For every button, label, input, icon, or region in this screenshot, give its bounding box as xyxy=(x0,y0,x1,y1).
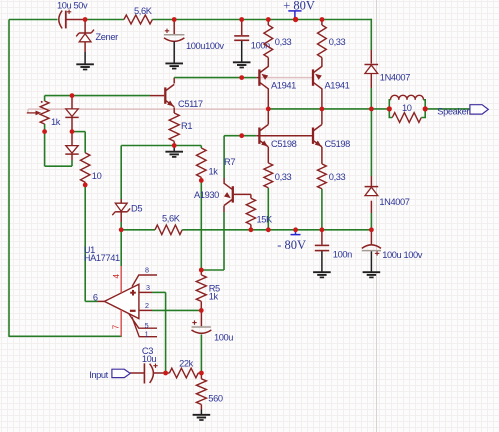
op-amp pin 7 power line xyxy=(111,310,121,336)
wire filter to speaker connector xyxy=(425,108,470,110)
page border line xyxy=(376,0,378,432)
wire D1 to output node xyxy=(370,74,372,109)
svg-text:A1930: A1930 xyxy=(194,190,219,200)
wire top rail left segment xyxy=(9,19,58,21)
wire R7 top stub xyxy=(200,146,202,149)
wire pot bottom stub xyxy=(44,124,46,132)
svg-text:3: 3 xyxy=(146,283,150,292)
wire R7 bottom stub xyxy=(200,177,202,180)
wire Q3 collector to base rail xyxy=(223,136,225,184)
node R7 bottom xyxy=(199,178,204,183)
resistor R13 560 xyxy=(196,379,222,405)
svg-text:0,33: 0,33 xyxy=(275,172,292,182)
node 22k right xyxy=(199,371,204,376)
svg-text:8: 8 xyxy=(145,265,149,274)
svg-text:1k: 1k xyxy=(209,291,219,301)
wire R13 to ground xyxy=(200,405,202,410)
resistor R11 15K xyxy=(246,198,273,224)
node filter left xyxy=(387,106,392,111)
wire Q5 base to Q6 base xyxy=(261,135,313,137)
wire node A to D3 xyxy=(71,20,73,109)
power +80V xyxy=(283,0,315,20)
wire pot bottom to D4 xyxy=(45,132,72,167)
op-amp pin 2 label xyxy=(145,301,149,310)
inductor L1 10 xyxy=(391,95,424,113)
node output diodes xyxy=(369,107,374,112)
wire -80V rail right of R8 xyxy=(182,229,371,231)
ground for zener xyxy=(76,52,94,70)
node R4 top xyxy=(266,17,271,22)
svg-text:10: 10 xyxy=(92,171,102,181)
op-amp U1 HA17741 xyxy=(84,245,139,318)
wire op-amp pin3 xyxy=(136,291,166,293)
wire D4 bottom stub xyxy=(71,154,73,160)
node R9 bottom xyxy=(266,227,271,232)
svg-text:15K: 15K xyxy=(257,215,274,225)
capacitor C1 10u 50v xyxy=(9,1,88,29)
node input / pin3 xyxy=(163,371,168,376)
svg-text:0,33: 0,33 xyxy=(275,37,292,47)
op-amp pin 3 label xyxy=(146,283,150,292)
wire top rail +80V section xyxy=(242,19,372,21)
svg-text:22k: 22k xyxy=(179,358,194,368)
ground for C8 xyxy=(363,251,381,277)
svg-text:5,6K: 5,6K xyxy=(134,6,153,16)
node upper base rail xyxy=(239,75,244,80)
svg-text:R1: R1 xyxy=(181,121,192,131)
wire D5 to -80V rail xyxy=(120,199,122,230)
wire node B to D4 xyxy=(71,132,73,146)
node +80V rail xyxy=(293,17,298,22)
svg-text:Input: Input xyxy=(89,370,108,380)
svg-text:A1941: A1941 xyxy=(325,80,350,90)
ground for R13 xyxy=(193,410,211,421)
wire +80V rail down to D1 xyxy=(370,19,372,64)
wire output node down to D2 xyxy=(370,109,372,186)
svg-text:HA17741: HA17741 xyxy=(84,253,120,263)
wire Q3 emitter to R5 node xyxy=(201,206,224,270)
wire left feedback vertical xyxy=(8,20,10,337)
wire output rail xyxy=(268,108,390,110)
wire Q4 collector through output to Q6 collector xyxy=(267,88,269,124)
svg-text:560: 560 xyxy=(208,393,223,403)
diode D2 1N4007 xyxy=(365,187,410,207)
svg-text:Zener: Zener xyxy=(96,32,119,42)
ground for R1 node xyxy=(165,146,183,157)
resistor R8 5,6K xyxy=(155,214,182,235)
wire pin3 to input node xyxy=(165,292,167,373)
wire Q5 collector through output to Q7 collector xyxy=(321,88,323,124)
wire top rail R2 to C4 xyxy=(152,19,241,21)
transistor Q3 A1930 xyxy=(194,183,233,205)
svg-text:1N4007: 1N4007 xyxy=(379,197,409,207)
wire R6 to Q5 emitter xyxy=(321,58,323,67)
node R6 top xyxy=(320,17,325,22)
svg-text:10: 10 xyxy=(402,103,412,113)
svg-text:C5117: C5117 xyxy=(178,99,203,109)
svg-text:2: 2 xyxy=(145,301,149,310)
node -80V left xyxy=(119,227,124,232)
wire input connector to C3 xyxy=(130,372,144,374)
diode D3 xyxy=(65,109,78,118)
wire Q3 base to R11 xyxy=(234,194,251,198)
diode ZD1 Zener xyxy=(76,20,118,53)
svg-text:A1941: A1941 xyxy=(271,80,296,90)
svg-text:4: 4 xyxy=(112,274,121,279)
resistor R14 10 (parallel with L1) xyxy=(392,113,421,123)
node R3 bottom xyxy=(83,183,88,188)
wire op-amp pin2 to R5 bottom xyxy=(136,309,201,311)
svg-text:Speaker: Speaker xyxy=(437,106,469,116)
op-amp pin 8 line xyxy=(132,265,157,286)
connector Input xyxy=(89,369,130,380)
transistor Q7 C5198 xyxy=(313,125,350,150)
wire -80V rail to op-amp pin4 xyxy=(120,230,122,266)
svg-text:C5198: C5198 xyxy=(325,139,351,149)
svg-text:100u: 100u xyxy=(214,332,233,342)
svg-text:D5: D5 xyxy=(131,204,142,214)
wire Q7 emitter to R10 xyxy=(321,147,323,164)
resistor R3 10 xyxy=(81,153,102,182)
ground for C7 xyxy=(313,251,331,277)
wire op-amp pin6 output xyxy=(85,300,104,302)
node pot bottom xyxy=(42,129,47,134)
svg-text:R7: R7 xyxy=(224,157,235,167)
transistor Q4 A1941 xyxy=(259,66,296,90)
wire R3 to op-amp output xyxy=(84,185,86,302)
wire mid rail R1 bottom xyxy=(121,145,201,147)
op-amp pin 5 line xyxy=(129,314,157,330)
op-amp pin 4 power line xyxy=(112,266,121,293)
transistor Q5 A1941 xyxy=(313,66,350,90)
svg-text:100u 100v: 100u 100v xyxy=(382,250,423,260)
wire pot top to Q1 base xyxy=(45,95,165,97)
wire C1 to zener node xyxy=(66,19,85,21)
power -80V xyxy=(277,230,306,252)
svg-text:10u 50v: 10u 50v xyxy=(57,1,88,11)
node output Q5 xyxy=(320,107,325,112)
wire node C to D5 xyxy=(120,146,122,200)
node R10 bottom xyxy=(320,227,325,232)
node R5 bottom / pin2 xyxy=(199,308,204,313)
resistor R2 5,6K xyxy=(124,6,153,24)
wire input node to R12 xyxy=(166,372,170,374)
capacitor C4 100n xyxy=(234,20,270,51)
wire D3 to node B xyxy=(71,117,73,131)
diode D4 xyxy=(65,146,78,155)
svg-text:7: 7 xyxy=(111,324,120,329)
svg-text:1N4007: 1N4007 xyxy=(380,73,410,83)
node B diode chain mid xyxy=(70,129,75,134)
svg-text:100n: 100n xyxy=(333,250,352,260)
capacitor C6 100u xyxy=(192,310,234,342)
wire pot top stub xyxy=(44,96,46,101)
wire filter bracket xyxy=(389,100,425,118)
wire R7 to R5 node xyxy=(200,180,202,270)
diode D5 xyxy=(112,203,142,215)
wire Q4 base to Q5 base (highlighted) xyxy=(261,77,313,79)
node R11 bottom xyxy=(249,227,254,232)
resistor R10 0,33 xyxy=(318,164,346,189)
wire R11 to -80V rail xyxy=(250,225,252,230)
wire feedback from pot wiper (highlighted) xyxy=(28,109,268,113)
node filter right xyxy=(423,106,428,111)
svg-text:10u: 10u xyxy=(142,354,157,364)
resistor R12 22k xyxy=(169,358,198,377)
resistor R7 1k xyxy=(197,148,236,177)
svg-text:0,33: 0,33 xyxy=(329,172,346,182)
wire +80V to R4 top xyxy=(267,20,269,26)
ground for C2 xyxy=(165,42,183,69)
capacitor C2 100u100v xyxy=(164,20,224,51)
wire +80V to R6 top xyxy=(321,20,323,26)
resistor R5 1k xyxy=(196,270,220,310)
svg-text:100u100v: 100u100v xyxy=(186,41,224,51)
wire D2 to -80V rail xyxy=(370,201,372,230)
wire C3 to input node xyxy=(153,372,166,374)
node -80V symbol xyxy=(293,227,298,232)
potentiometer RV1 1k xyxy=(27,101,61,127)
wire upper base rail to Q4 base xyxy=(242,77,260,79)
wire node B to R3 xyxy=(72,132,85,153)
capacitor C8 100u 100v xyxy=(362,230,423,260)
wire C6 to 22k node xyxy=(200,335,202,374)
wire Q6 emitter to R9 xyxy=(267,147,269,163)
node C4 top xyxy=(239,17,244,22)
node pot top / Q1 base xyxy=(70,93,75,98)
capacitor C7 100n xyxy=(315,230,352,260)
node R5 top xyxy=(199,268,204,273)
resistor R6 0,33 xyxy=(318,25,346,58)
wire -80V rail left of R8 xyxy=(121,229,155,231)
node C2 top xyxy=(172,17,177,22)
transistor Q1 C5117 xyxy=(165,84,203,109)
svg-text:6: 6 xyxy=(93,293,98,303)
svg-text:C5198: C5198 xyxy=(271,139,297,149)
node zener top xyxy=(83,17,88,22)
wire R4 to Q4 emitter xyxy=(267,58,269,67)
connector Speaker xyxy=(437,105,488,117)
node R1 ground xyxy=(172,143,177,148)
svg-text:1k: 1k xyxy=(209,167,219,177)
wire node to R13 xyxy=(200,373,202,379)
wire lower base rail xyxy=(224,135,259,137)
wire bottom feedback to op-amp pin7 xyxy=(9,335,122,337)
wire Q1 collector to upper base rail xyxy=(174,78,242,84)
svg-text:5,6K: 5,6K xyxy=(162,214,181,224)
node -80V right xyxy=(369,227,374,232)
wire R9 to -80V rail xyxy=(267,188,269,230)
op-amp pin 6 label xyxy=(93,293,98,303)
svg-text:- 80V: - 80V xyxy=(277,238,306,252)
svg-text:1: 1 xyxy=(145,330,149,339)
capacitor C3 10u xyxy=(142,346,158,383)
resistor R1 xyxy=(169,107,192,145)
svg-text:0,33: 0,33 xyxy=(329,37,346,47)
diode D1 1N4007 xyxy=(365,65,411,83)
resistor R9 0,33 xyxy=(264,163,292,188)
transistor Q6 C5198 xyxy=(259,125,296,150)
op-amp pin 1 line xyxy=(132,317,157,339)
node lower base rail xyxy=(239,133,244,138)
wire top rail zener to R2 xyxy=(85,19,124,21)
resistor R4 0,33 xyxy=(264,25,292,58)
wire R3 bottom stub xyxy=(84,182,86,185)
wire R12 to R13 node xyxy=(198,372,201,374)
svg-text:1k: 1k xyxy=(51,117,61,127)
node output Q4 xyxy=(266,107,271,112)
ground for C4 xyxy=(233,41,251,68)
wire R10 to -80V rail xyxy=(321,189,323,230)
